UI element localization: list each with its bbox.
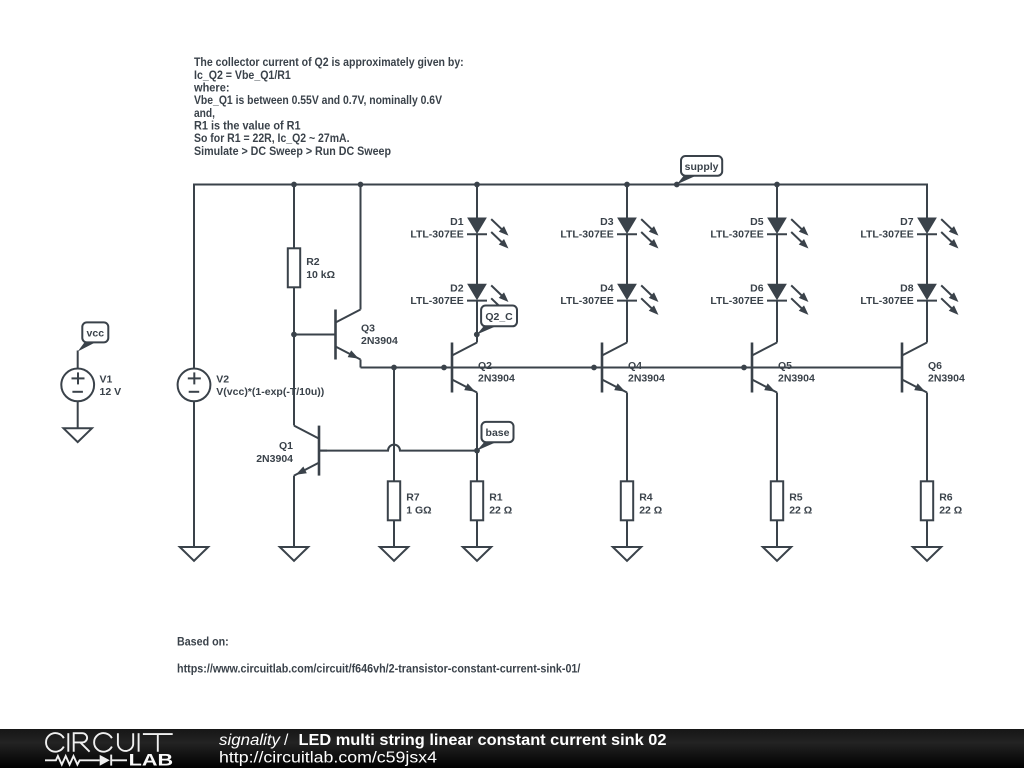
node junction bus/LED string	[624, 182, 630, 188]
wire (Q3 collector)	[360, 185, 362, 310]
node junction base rail	[441, 365, 447, 371]
node junction base rail/R7	[391, 365, 397, 371]
voltage source V2	[178, 369, 325, 402]
transistor Q2 2N3904	[444, 343, 515, 396]
svg-text:Based on:: Based on:	[177, 634, 229, 648]
svg-text:/: /	[284, 732, 289, 749]
wire (emitter)	[776, 393, 778, 482]
transistor Q1 2N3904 (mirrored)	[256, 426, 327, 479]
wire (collector)	[626, 301, 628, 343]
wire	[626, 520, 628, 547]
svg-text:22 Ω: 22 Ω	[639, 504, 662, 516]
wire	[293, 185, 295, 249]
wire (Q1 collector up)	[293, 335, 295, 426]
svg-text:LTL-307EE: LTL-307EE	[710, 295, 763, 307]
wire (collector)	[776, 301, 778, 343]
svg-text:LTL-307EE: LTL-307EE	[560, 295, 613, 307]
wire	[626, 234, 628, 284]
LED D4 LTL-307EE	[560, 282, 661, 317]
svg-text:R7: R7	[406, 491, 420, 503]
svg-text:LTL-307EE: LTL-307EE	[860, 229, 913, 241]
svg-text:R2: R2	[306, 256, 320, 268]
node junction supply flag	[674, 182, 680, 188]
resistor R2 10k	[288, 248, 335, 287]
wire supply bus	[194, 185, 927, 369]
svg-text:10 kΩ: 10 kΩ	[306, 269, 335, 281]
svg-text:2N3904: 2N3904	[361, 335, 398, 347]
LED D3 LTL-307EE	[560, 216, 661, 251]
transistor Q3 2N3904	[328, 310, 398, 363]
wire (emitter)	[926, 393, 928, 482]
ground (V1)	[64, 428, 92, 442]
wire (emitter)	[626, 393, 628, 482]
resistor R5	[771, 481, 812, 520]
logo doodle resistor+diode	[45, 755, 127, 766]
svg-text:LED multi string linear consta: LED multi string linear constant current…	[299, 732, 667, 749]
svg-text:2N3904: 2N3904	[628, 373, 665, 385]
wire	[77, 401, 79, 428]
resistor R6	[921, 481, 962, 520]
wire (collector)	[476, 301, 478, 343]
ground (R6)	[913, 547, 941, 561]
ground (R4)	[613, 547, 641, 561]
svg-text:https://www.circuitlab.com/cir: https://www.circuitlab.com/circuit/f646v…	[177, 662, 581, 676]
svg-text:1 GΩ: 1 GΩ	[406, 504, 431, 516]
resistor R4	[621, 481, 662, 520]
ground (V2)	[180, 547, 208, 561]
svg-text:Q5: Q5	[778, 360, 792, 372]
svg-text:LTL-307EE: LTL-307EE	[710, 229, 763, 241]
net flag base	[477, 441, 497, 450]
wire base rail	[361, 367, 903, 369]
LED D6 LTL-307EE	[710, 282, 811, 317]
wire	[393, 520, 395, 547]
wire	[476, 520, 478, 547]
wire	[293, 287, 295, 334]
transistor Q6 2N3904	[894, 343, 965, 396]
wire (Q1 emitter down)	[293, 476, 295, 548]
node junction base rail	[741, 365, 747, 371]
resistor R1	[471, 481, 512, 520]
svg-text:D5: D5	[750, 216, 764, 228]
svg-text:R6: R6	[939, 491, 953, 503]
node junction Q3 collector/bus	[358, 182, 364, 188]
wire	[776, 234, 778, 284]
wire	[193, 401, 195, 547]
svg-text:supply: supply	[685, 161, 719, 173]
net flag supply	[677, 175, 697, 185]
svg-text:Q1: Q1	[279, 440, 293, 452]
svg-text:R4: R4	[639, 491, 653, 503]
wire (emitter)	[476, 393, 478, 482]
wire	[776, 185, 778, 219]
svg-text:Q2_C: Q2_C	[485, 311, 513, 323]
node junction bus/LED string	[774, 182, 780, 188]
svg-text:Simulate > DC Sweep > Run DC S: Simulate > DC Sweep > Run DC Sweep	[194, 144, 391, 158]
ground (R1)	[463, 547, 491, 561]
svg-text:D4: D4	[600, 282, 614, 294]
net flag Q2_C	[477, 325, 497, 334]
svg-text:http://circuitlab.com/c59jsx4: http://circuitlab.com/c59jsx4	[219, 750, 437, 767]
wire	[476, 185, 478, 219]
wire	[626, 185, 628, 219]
svg-text:LTL-307EE: LTL-307EE	[410, 229, 463, 241]
svg-text:D1: D1	[450, 216, 464, 228]
svg-text:R5: R5	[789, 491, 803, 503]
node junction R2/Q3/Q1	[291, 332, 297, 338]
LED D5 LTL-307EE	[710, 216, 811, 251]
voltage source V1	[61, 369, 121, 402]
svg-text:2N3904: 2N3904	[928, 373, 965, 385]
wire (R7 top)	[393, 368, 395, 482]
wire	[476, 234, 478, 284]
ground (Q1 emitter)	[280, 547, 308, 561]
svg-text:R1: R1	[489, 491, 503, 503]
svg-text:D8: D8	[900, 282, 914, 294]
svg-text:V2: V2	[216, 374, 229, 386]
LED D8 LTL-307EE	[860, 282, 961, 317]
svg-text:22 Ω: 22 Ω	[489, 504, 512, 516]
svg-text:base: base	[486, 427, 510, 439]
svg-text:Q6: Q6	[928, 360, 942, 372]
resistor R7 1G	[388, 481, 432, 520]
wire (Q3 emitter to base rail)	[360, 360, 362, 368]
transistor Q5 2N3904	[744, 343, 815, 396]
node Q2_C	[474, 332, 480, 338]
svg-text:D6: D6	[750, 282, 764, 294]
CircuitLab logo CIRCUIT letters	[46, 733, 173, 752]
ground (R7)	[380, 547, 408, 561]
wire (to Q3 base)	[294, 334, 336, 336]
svg-text:22 Ω: 22 Ω	[789, 504, 812, 516]
ground (R5)	[763, 547, 791, 561]
svg-text:Q4: Q4	[628, 360, 642, 372]
svg-text:Q3: Q3	[361, 323, 375, 335]
node junction base rail	[591, 365, 597, 371]
wire (collector)	[926, 301, 928, 343]
svg-text:vcc: vcc	[87, 327, 105, 339]
node junction R2/bus	[291, 182, 297, 188]
svg-text:2N3904: 2N3904	[256, 453, 293, 465]
svg-text:Vbe_Q1 is between 0.55V and 0.: Vbe_Q1 is between 0.55V and 0.7V, nomina…	[194, 93, 442, 107]
wire	[776, 520, 778, 547]
svg-text:Q2: Q2	[478, 360, 492, 372]
wire	[926, 234, 928, 284]
svg-text:2N3904: 2N3904	[778, 373, 815, 385]
svg-text:D2: D2	[450, 282, 464, 294]
svg-text:2N3904: 2N3904	[478, 373, 515, 385]
svg-text:V(vcc)*(1-exp(-T/10u)): V(vcc)*(1-exp(-T/10u))	[216, 386, 324, 398]
net flag vcc	[78, 341, 97, 352]
svg-text:signality: signality	[219, 732, 281, 749]
svg-text:D7: D7	[900, 216, 914, 228]
node junction Q1 base / Q2 emitter / R1	[474, 448, 480, 454]
svg-text:22 Ω: 22 Ω	[939, 504, 962, 516]
LED D1 LTL-307EE	[410, 216, 511, 251]
wire Q1 base rail with hop over R7	[319, 445, 477, 451]
svg-text:D3: D3	[600, 216, 614, 228]
svg-text:12 V: 12 V	[100, 386, 122, 398]
node junction bus/LED string	[474, 182, 480, 188]
svg-text:V1: V1	[100, 374, 113, 386]
transistor Q4 2N3904	[594, 343, 665, 396]
svg-text:LAB: LAB	[129, 751, 174, 768]
LED D2 LTL-307EE	[410, 282, 511, 317]
LED D7 LTL-307EE	[860, 216, 961, 251]
svg-text:LTL-307EE: LTL-307EE	[860, 295, 913, 307]
wire	[926, 520, 928, 547]
annotation text block	[193, 55, 464, 158]
svg-text:LTL-307EE: LTL-307EE	[560, 229, 613, 241]
svg-text:LTL-307EE: LTL-307EE	[410, 295, 463, 307]
wire	[77, 351, 79, 369]
